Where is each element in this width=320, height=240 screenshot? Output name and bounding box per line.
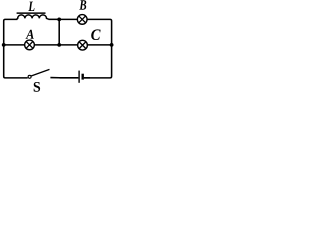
label L: [28, 2, 34, 11]
lamp A: [25, 40, 35, 50]
label C: [91, 29, 100, 40]
wire battery to bottom-right: [84, 77, 90, 79]
wire left edge to lamp A: [4, 44, 25, 46]
node junction right edge middle: [110, 43, 114, 47]
node junction left edge middle: [2, 43, 6, 47]
node junction on top wire: [57, 17, 61, 21]
label S: [34, 82, 40, 92]
wire switch to battery: [60, 77, 79, 79]
lamp B: [77, 15, 87, 25]
wire lamp B to right side, down right edge: [87, 19, 112, 44]
inductor L: [17, 13, 49, 19]
wire lamp C to right junction: [87, 44, 111, 46]
label B: [79, 0, 86, 9]
switch S: [28, 69, 59, 78]
wire top junction to lamp B: [59, 18, 77, 20]
wire middle junction to lamp C: [59, 44, 77, 46]
wire branch vertical between top and middle rows: [58, 19, 60, 44]
label A: [26, 30, 34, 39]
wire lamp A to middle junction: [34, 44, 59, 46]
wire right edge lower (middle junction down to bottom-right corner): [84, 45, 112, 78]
wire from inductor to top junction: [49, 18, 60, 20]
wire left side (top-left corner down to bottom-left corner): [4, 19, 28, 78]
battery cell (short thick plate): [81, 74, 83, 80]
lamp C: [78, 40, 88, 50]
battery cell (long plate): [78, 71, 80, 83]
node junction on middle wire: [57, 43, 61, 47]
